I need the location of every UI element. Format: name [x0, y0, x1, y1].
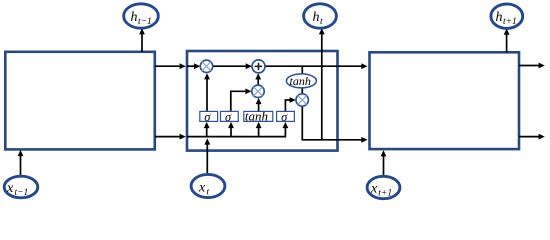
wire h input line inside LSTM ending in elbow up to sigma gate 4: [187, 122, 288, 137]
wire feed arrow up into sigma gate 1: [204, 122, 210, 137]
adder (cell state sum): [252, 60, 265, 73]
wire h(t) branch up to h(t) ellipse: [319, 28, 325, 140]
svg-text:h: h: [131, 10, 138, 25]
wire C branch down into tanh ellipse: [301, 66, 303, 74]
wire h output arrow from box B: [519, 134, 545, 140]
sigma gate 2 (input gate): [221, 110, 239, 124]
svg-text:t+1: t+1: [503, 17, 517, 27]
svg-text:h: h: [313, 10, 320, 25]
cell box A (time t-1): [5, 52, 155, 150]
wire h arrow from LSTM to B: [338, 137, 368, 143]
sigma gate 4 (output gate): [277, 110, 295, 124]
svg-text:x: x: [6, 181, 14, 196]
svg-text:σ: σ: [225, 110, 232, 124]
svg-text:h: h: [496, 10, 503, 25]
cell box LSTM (time t): [187, 51, 338, 151]
svg-text:x: x: [370, 182, 378, 197]
multiplier X1 (forget gate product): [200, 60, 212, 72]
multiplier X3 (output gate product): [296, 94, 308, 106]
wire from sigma gate 1 up into multiplier X1: [204, 73, 210, 111]
wire elbow from sigma gate 2 to multiplier X2: [231, 88, 252, 111]
wire from multiplier X2 up into adder: [255, 73, 261, 85]
svg-text:σ: σ: [281, 110, 288, 124]
svg-text:t: t: [320, 17, 323, 27]
wire C arrow from A to LSTM: [155, 63, 186, 69]
tanh gate box (candidate values): [244, 109, 273, 124]
wire elbow from sigma gate 4 to multiplier X3: [285, 97, 295, 111]
wire C arrow from LSTM to B: [338, 63, 368, 69]
wire from multiplier X1 to adder: [213, 63, 252, 69]
svg-text:t+1: t+1: [378, 189, 392, 199]
wire C output arrow from box B: [519, 63, 545, 69]
svg-text:tanh: tanh: [290, 74, 311, 88]
svg-text:t: t: [207, 188, 210, 198]
wire h(t-1) output arrow up from box A: [139, 28, 145, 52]
wire feed arrow up into tanh gate box: [256, 122, 262, 137]
node x(t+1) ellipse: [367, 176, 400, 198]
node x(t) ellipse: [191, 174, 225, 197]
wire x(t-1) input arrow into box A: [18, 150, 24, 176]
svg-text:tanh: tanh: [245, 109, 268, 124]
node h(t-1) ellipse: [124, 4, 159, 28]
wire C line into forget multiplier X1: [187, 63, 200, 69]
wire x(t) input arrow up to h line: [204, 138, 210, 174]
multiplier X2 (input gate product): [252, 85, 264, 97]
wire from tanh gate box up into multiplier X2: [256, 98, 262, 112]
node x(t-1) ellipse: [4, 176, 38, 198]
wire h output from multiplier X3 down then right to LSTM edge: [302, 106, 337, 140]
sigma gate 1 (forget gate): [200, 110, 218, 124]
wire x(t+1) input arrow into box B: [381, 150, 387, 176]
svg-text:x: x: [198, 181, 206, 196]
svg-text:t−1: t−1: [138, 17, 152, 27]
svg-text:σ: σ: [204, 110, 211, 124]
wire from tanh ellipse down into multiplier X3: [301, 88, 303, 95]
wire h arrow from A to LSTM: [155, 134, 186, 140]
node h(t) ellipse: [304, 4, 337, 28]
cell box B (time t+1): [370, 52, 520, 149]
svg-text:t−1: t−1: [15, 188, 29, 198]
tanh ellipse (cell state activation): [286, 74, 316, 88]
wire feed arrow up into sigma gate 2: [228, 122, 234, 137]
wire C line from adder to LSTM right edge: [265, 65, 338, 67]
wire h(t+1) output arrow up from box B: [504, 29, 510, 53]
node h(t+1) ellipse: [491, 4, 523, 28]
